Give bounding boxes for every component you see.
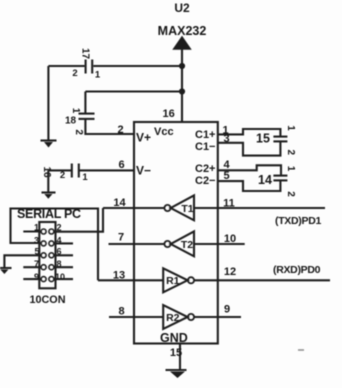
svg-text:2: 2 (56, 223, 61, 233)
wire pin 13 row (left of R1) (98, 279, 163, 281)
IC U2 body (134, 122, 218, 344)
svg-text:3: 3 (34, 236, 39, 246)
driver T1 (164, 195, 194, 220)
svg-text:10CON: 10CON (30, 294, 66, 306)
svg-text:2: 2 (73, 129, 84, 135)
junction dot lower (179, 88, 185, 94)
wire pin 5 to ground (4, 255, 41, 267)
wire pin 4 row C4 (218, 165, 281, 175)
wire drop to ground (mid-left) (47, 170, 49, 191)
svg-text:V−: V− (136, 164, 151, 178)
capacitor C7 (72, 48, 101, 81)
capacitor C8 (65, 108, 95, 136)
capacitor C4 (258, 166, 296, 198)
svg-text:3: 3 (223, 133, 229, 145)
wire C8 bottom to IC pin 2 (85, 119, 134, 134)
ground (top-left) (41, 141, 57, 148)
stub pin 10 (54, 278, 73, 280)
wire rail second (to C8 drop) (85, 90, 182, 92)
svg-text:9: 9 (224, 304, 230, 316)
svg-text:16: 16 (163, 108, 175, 120)
ground (mid-left) (42, 193, 56, 199)
svg-text:18: 18 (65, 116, 77, 127)
pin circle 9 (41, 277, 46, 282)
wire pin 13 to connector pin 3 (11, 209, 99, 281)
pin circle 4 (49, 241, 54, 246)
pin circle 6 (49, 253, 54, 258)
svg-text:C2+: C2+ (195, 163, 216, 175)
wire drop to ground (top-left) (47, 66, 49, 140)
svg-text:12: 12 (224, 266, 236, 278)
svg-text:5: 5 (34, 247, 39, 257)
svg-text:2: 2 (117, 124, 123, 136)
stub pin 9 (23, 278, 41, 280)
wire pin 9 row (right of R2) (194, 316, 241, 318)
svg-text:16: 16 (41, 166, 52, 178)
pin circle 7 (41, 265, 46, 270)
stub pin 4 (54, 242, 73, 244)
connector J1 body (39, 222, 55, 288)
svg-text:8: 8 (118, 306, 124, 318)
svg-text:14: 14 (258, 173, 272, 187)
svg-text:U2: U2 (174, 1, 190, 15)
svg-text:15: 15 (170, 347, 182, 359)
svg-text:SERIAL PC: SERIAL PC (17, 207, 81, 221)
capacitor C5 (256, 125, 296, 155)
svg-text:15: 15 (256, 132, 270, 146)
receiver R1 (163, 268, 194, 292)
pin circle 1 (41, 229, 46, 234)
noise dash artifact (298, 349, 304, 351)
wire pin 14 to connector pin 2 (54, 208, 103, 232)
wire V- row left of C6 (48, 169, 72, 171)
stub pin 7 (23, 266, 41, 268)
pin circle 2 (49, 229, 54, 234)
svg-text:C1+: C1+ (195, 129, 216, 141)
svg-text:1: 1 (70, 108, 81, 114)
junction dot upper (179, 63, 185, 69)
connector pin circles (41, 229, 54, 282)
svg-text:10: 10 (55, 272, 65, 282)
wire V- row right of C6 to IC pin 6 (79, 169, 134, 171)
svg-text:10: 10 (224, 233, 236, 245)
ground (connector pin 5) (0, 268, 12, 274)
wire rail top (right of C7) (93, 65, 182, 67)
wire pin 7 row (left of T2) (109, 243, 165, 245)
svg-text:1: 1 (285, 166, 296, 172)
ground (pin 15) (166, 370, 187, 378)
pin circle 10 (49, 277, 54, 282)
svg-text:5: 5 (223, 170, 229, 182)
receiver R2 (163, 305, 194, 329)
svg-text:1: 1 (285, 125, 296, 131)
svg-text:9: 9 (34, 272, 39, 282)
pin circle 5 (41, 253, 46, 258)
svg-text:2: 2 (60, 170, 65, 181)
wire pin 3 row C5 (218, 141, 281, 155)
wire C8 top drop (84, 92, 86, 114)
svg-text:1: 1 (82, 172, 88, 183)
svg-text:1: 1 (95, 70, 101, 81)
wire pin 11 row (right of T1) (194, 207, 325, 209)
capacitor C6 (41, 164, 88, 184)
svg-text:8: 8 (56, 259, 61, 269)
svg-text:C1−: C1− (195, 141, 216, 153)
svg-text:4: 4 (56, 236, 61, 246)
svg-text:2: 2 (72, 68, 77, 79)
svg-text:Vcc: Vcc (154, 126, 174, 138)
pin 15 wire (179, 344, 181, 370)
svg-text:2: 2 (285, 191, 296, 197)
svg-text:6: 6 (56, 247, 61, 257)
pin circle 3 (41, 241, 46, 246)
wire VCC vertical to pin 16 (181, 49, 183, 122)
svg-text:T2: T2 (181, 239, 193, 251)
svg-text:R1: R1 (166, 275, 180, 287)
driver T2 (164, 231, 194, 256)
stub pin 1 (23, 230, 41, 232)
svg-text:(TXD)PD1: (TXD)PD1 (275, 215, 321, 227)
wire pin 10 row (right of T2) (194, 243, 245, 245)
svg-text:14: 14 (113, 197, 126, 209)
svg-text:17: 17 (80, 48, 91, 60)
pin circle 8 (49, 265, 54, 270)
svg-text:7: 7 (118, 232, 124, 244)
wire pin 8 row (left of R2) (109, 316, 163, 318)
svg-text:1: 1 (34, 223, 39, 233)
svg-text:7: 7 (34, 259, 39, 269)
wire pin 1 row C5 (218, 129, 281, 137)
svg-text:GND: GND (160, 331, 188, 345)
wire pin 12 row (right of R1) (194, 279, 330, 281)
VCC power symbol (173, 37, 191, 50)
wire pin 5 row C4 (218, 180, 281, 191)
svg-text:(RXD)PD0: (RXD)PD0 (273, 264, 321, 276)
stub pin 6 (54, 254, 73, 256)
svg-text:C2−: C2− (195, 175, 216, 187)
svg-text:2: 2 (285, 150, 296, 156)
svg-text:R2: R2 (166, 312, 180, 324)
svg-text:6: 6 (118, 159, 124, 171)
wire pin 14 row (left of T1) (103, 207, 164, 209)
svg-text:T1: T1 (181, 203, 193, 215)
svg-text:V+: V+ (136, 131, 151, 145)
wire rail top (left of C7) (48, 65, 84, 67)
svg-text:13: 13 (113, 270, 125, 282)
stub pin 8 (54, 266, 73, 268)
svg-text:11: 11 (223, 198, 235, 210)
